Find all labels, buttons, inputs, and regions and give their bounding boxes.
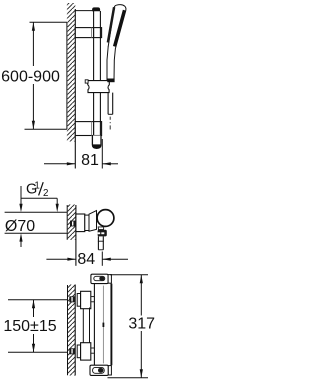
- dimension 150±15 : extension lines: [8, 299, 68, 301]
- upper union: supply in wall (dark): [69, 296, 75, 302]
- back profile lines between unions: [83, 308, 89, 343]
- shower rail tube: [94, 11, 101, 141]
- upper union escutcheon: [77, 294, 80, 307]
- dimension 600-900 : vertical line + arrows: [32, 22, 35, 129]
- hose continuation centerline (dash-dot): [109, 117, 111, 130]
- top knob (shut-off handle): [91, 274, 112, 283]
- shower hose (solid part): [108, 93, 113, 115]
- wall (middle) hatched strip: [67, 205, 76, 266]
- dimension 600-900 : top extension line: [30, 21, 67, 23]
- hand shower grip: [107, 47, 115, 82]
- wall (top) hatched strip: [67, 3, 75, 169]
- escutcheon (side): [76, 214, 85, 232]
- dimension 84 : label: [77, 250, 96, 268]
- lower union stubs: [91, 348, 95, 353]
- thermostat knob (circle, side view): [97, 210, 114, 227]
- thermostat body (front): [94, 284, 111, 366]
- body slot line with marker: [103, 286, 105, 364]
- dimension 150±15 : vertical line + arrows: [32, 300, 35, 353]
- G 1/2 leader arrow left / dimension Ø70 top arrow: [19, 186, 22, 212]
- wall (bottom) hatched strip: [68, 285, 76, 376]
- dimension 317 : extension lines: [110, 274, 148, 276]
- valve body (side): [85, 215, 89, 230]
- svg-text:317: 317: [128, 315, 155, 332]
- G 1/2 leader arrow right: [56, 198, 59, 212]
- dimension 81 : dimension line + arrows: [44, 139, 118, 169]
- dimension 84 : dimension line + arrows: [46, 258, 128, 261]
- grip collar at holder: [107, 79, 114, 83]
- bottom bracket: [75, 122, 101, 136]
- bottom knob (temperature handle): [90, 365, 111, 375]
- lower union block: [81, 343, 91, 360]
- dimension 317 : vertical line + arrows: [140, 275, 143, 378]
- upper union stubs: [91, 297, 95, 302]
- G 1/2 leader line: [21, 197, 58, 199]
- lower union: supply in wall (dark): [69, 348, 75, 354]
- rail bottom end cap: [92, 136, 101, 149]
- hose nut (dark): [98, 230, 107, 237]
- wall top edge line: [75, 10, 93, 12]
- hand shower head: [108, 5, 126, 51]
- dimension Ø70 : bottom arrow: [19, 233, 22, 247]
- label G 1/2: [26, 181, 48, 199]
- supply pipe through wall (dark): [70, 221, 76, 227]
- dimension 81 : label: [78, 152, 100, 169]
- top bracket: [75, 28, 101, 38]
- cone toward knob: [89, 211, 97, 232]
- outlet neck below knob: [98, 227, 104, 230]
- svg-text:600-900: 600-900: [1, 69, 60, 86]
- lower union escutcheon: [77, 345, 80, 358]
- svg-text:84: 84: [77, 251, 95, 268]
- svg-text:Ø70: Ø70: [5, 218, 35, 235]
- shower holder on rail: [85, 80, 109, 93]
- hose below nut: [98, 236, 104, 250]
- rail top cap: [92, 7, 100, 11]
- dimension 84 : right extension line: [101, 252, 103, 266]
- svg-text:150±15: 150±15: [3, 318, 56, 335]
- svg-text:2: 2: [43, 188, 48, 199]
- dimension 600-900 : bottom extension line: [25, 128, 67, 130]
- upper union block: [81, 291, 91, 308]
- dimension Ø70 : extension lines: [5, 211, 67, 213]
- svg-text:1: 1: [34, 181, 39, 192]
- svg-text:81: 81: [81, 152, 99, 169]
